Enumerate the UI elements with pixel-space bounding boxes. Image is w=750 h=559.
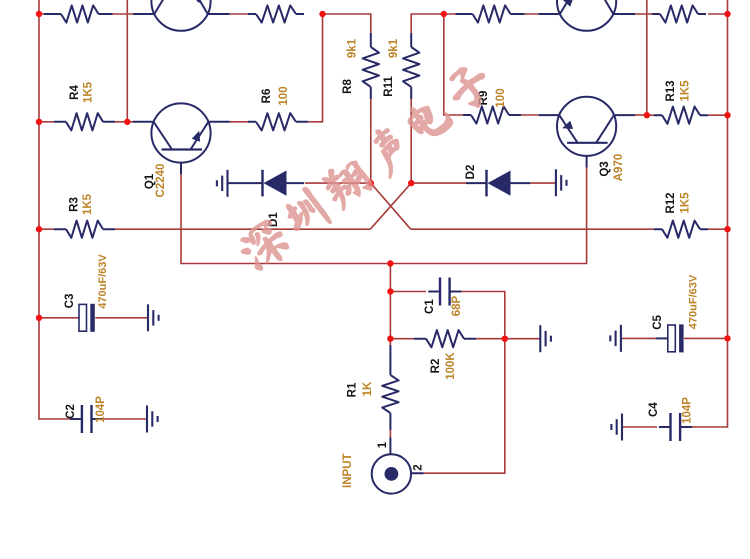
svg-text:R4: R4	[69, 85, 81, 100]
wire C1 right down to R2 node	[461, 292, 505, 339]
wire D2 to ground	[530, 182, 556, 184]
wire right supply rail	[696, 0, 728, 427]
wire R13 row	[647, 114, 728, 116]
transistor Q1	[133, 103, 230, 197]
wire R2 row	[390, 338, 504, 340]
wire Q1 base to Q3 base rail	[181, 167, 587, 264]
wire ground to C4	[622, 426, 657, 428]
svg-text:A970: A970	[613, 154, 625, 182]
wire R6 to top rail	[308, 14, 323, 122]
wire ground to C5	[621, 337, 656, 339]
resistor R4	[54, 81, 115, 130]
svg-text:R12: R12	[665, 192, 677, 213]
ground at R2/C1	[540, 325, 551, 352]
resistor R14 (top right, label cut off)	[652, 5, 706, 22]
node junction at 444,14	[441, 11, 447, 17]
resistor R2	[414, 330, 476, 380]
wire middle column to R1	[389, 264, 391, 346]
svg-text:C2: C2	[65, 404, 77, 419]
diode D1	[229, 170, 305, 227]
resistor R1	[347, 345, 399, 430]
svg-text:100: 100	[495, 88, 507, 107]
node junction at 39,122	[36, 119, 42, 125]
ground at C5	[610, 325, 621, 352]
svg-text:1K5: 1K5	[680, 192, 692, 214]
wire C3 row	[39, 317, 148, 319]
wire C4 to right rail	[683, 426, 697, 428]
svg-text:68P: 68P	[451, 295, 463, 316]
node junction at 390,264	[387, 260, 393, 266]
ground at D1	[217, 170, 228, 197]
wire vertical from top edge to R4 node	[126, 0, 128, 122]
transistor Q2 (top, cut off)	[133, 0, 230, 31]
ground at C3	[148, 304, 159, 331]
wire down to R9	[444, 14, 463, 115]
svg-text:R6: R6	[261, 89, 273, 104]
svg-text:R2: R2	[430, 359, 442, 374]
capacitor C2	[65, 396, 107, 433]
capacitor C5	[652, 274, 700, 352]
node junction at 647,115	[644, 112, 650, 118]
svg-text:C2240: C2240	[155, 164, 167, 198]
resistor R10 (top middle-right, label cut off)	[456, 5, 525, 22]
wire left supply rail	[39, 0, 71, 419]
transistor Q4 (top, cut off)	[539, 0, 636, 31]
node junction at 322,14	[319, 11, 325, 17]
svg-text:9k1: 9k1	[388, 38, 400, 58]
resistor R13	[654, 80, 708, 124]
capacitor C3	[64, 254, 109, 332]
wire input pin 2 loop	[424, 339, 505, 474]
resistor R11	[383, 33, 419, 99]
node junction at 390,292	[387, 288, 393, 294]
ground at C4	[611, 414, 622, 441]
wire Q1 collector to R6	[230, 121, 250, 123]
ground at C2	[147, 406, 158, 433]
node junction at 39,14	[36, 11, 42, 17]
node junction at 728,14	[724, 11, 730, 17]
svg-text:Q3: Q3	[599, 161, 611, 176]
wire top rail to Q4 base	[444, 13, 540, 15]
resistor R12	[654, 192, 708, 238]
wire R3 row to crossover	[39, 228, 370, 230]
node junction at 127,122	[124, 119, 130, 125]
wire C2 to ground	[103, 418, 147, 420]
svg-text:R11: R11	[383, 76, 395, 97]
wire top rail to R11	[411, 14, 444, 33]
wire D1 to node A	[305, 182, 371, 184]
diode D2	[465, 165, 530, 197]
node junction at 390,339	[387, 336, 393, 342]
svg-text:100: 100	[278, 86, 290, 105]
svg-text:2: 2	[413, 464, 425, 470]
wire Q3 collector to node	[635, 114, 647, 116]
wire vertical from top edge to R13 node	[646, 0, 648, 115]
wire R8 bottom lead to node	[370, 99, 372, 183]
watermark text	[235, 59, 498, 276]
node junction at 505,339	[502, 336, 508, 342]
svg-text:C1: C1	[424, 299, 436, 314]
svg-text:C3: C3	[64, 294, 76, 309]
svg-text:470uF/63V: 470uF/63V	[688, 274, 700, 329]
svg-text:R1: R1	[347, 382, 359, 397]
wire to C1 left	[390, 291, 426, 293]
transistor Q3	[539, 97, 636, 182]
svg-text:R3: R3	[69, 197, 81, 212]
svg-text:INPUT: INPUT	[342, 453, 354, 488]
wire R1 to input pin 1	[389, 430, 391, 438]
node junction at 411,183	[408, 180, 414, 186]
svg-text:C4: C4	[648, 402, 660, 417]
wire top-left rail segments	[39, 13, 249, 15]
wire R4 row	[39, 121, 134, 123]
svg-text:9k1: 9k1	[347, 38, 359, 58]
node junction at 371,183	[368, 180, 374, 186]
svg-text:1K5: 1K5	[680, 80, 692, 102]
svg-text:104P: 104P	[682, 397, 694, 424]
node junction at 728,115	[724, 112, 730, 118]
svg-text:1K5: 1K5	[82, 193, 94, 215]
svg-text:104P: 104P	[95, 396, 107, 423]
svg-text:R8: R8	[342, 79, 354, 94]
resistor R7 (top middle-left, label cut off)	[248, 5, 304, 22]
ground at D2	[556, 169, 567, 196]
svg-text:D2: D2	[465, 165, 477, 180]
svg-text:470uF/63V: 470uF/63V	[97, 254, 109, 309]
node junction at 39,229	[36, 226, 42, 232]
wire R9 to Q3 base	[521, 114, 539, 116]
resistor R9	[463, 88, 521, 123]
resistor R5 (top left, label cut off)	[44, 5, 113, 22]
wire top rail to R8	[323, 14, 371, 33]
svg-text:1K: 1K	[362, 381, 374, 396]
resistor R8	[342, 33, 379, 99]
connector INPUT jack	[372, 438, 424, 494]
svg-text:C5: C5	[652, 314, 664, 329]
wire crossover X	[370, 183, 411, 229]
resistor R3	[54, 193, 115, 237]
node junction at 728,338	[724, 335, 730, 341]
node junction at 39,318	[36, 315, 42, 321]
wire C5 to right rail	[684, 337, 728, 339]
svg-text:100K: 100K	[445, 352, 457, 380]
wire top-right rail segments	[635, 13, 728, 15]
wire node B to D2	[411, 182, 466, 184]
svg-text:1K5: 1K5	[83, 81, 95, 103]
resistor R6	[248, 86, 308, 130]
capacitor C1	[424, 278, 463, 317]
wire R2 node to ground	[505, 338, 541, 340]
node junction at 728,229	[724, 226, 730, 232]
svg-text:1: 1	[377, 441, 389, 448]
svg-text:R13: R13	[665, 80, 677, 101]
capacitor C4	[648, 397, 694, 441]
wire R11 bottom lead to node	[410, 99, 412, 183]
wire crossover to R12 row	[411, 228, 728, 230]
